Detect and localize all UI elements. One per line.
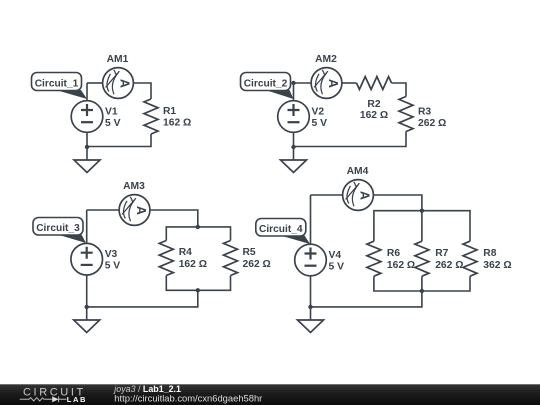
wire <box>87 209 119 211</box>
junction node rail top <box>196 225 200 229</box>
svg-text:Circuit_4: Circuit_4 <box>259 224 303 235</box>
wire <box>86 275 88 320</box>
svg-text:A: A <box>326 79 340 88</box>
ammeter AM2 <box>311 54 342 98</box>
wire <box>293 133 295 161</box>
svg-text:Circuit_1: Circuit_1 <box>35 78 79 89</box>
wire <box>310 195 312 244</box>
junction node <box>85 305 89 309</box>
node Circuit_4 flag <box>256 219 310 245</box>
svg-text:5 V: 5 V <box>312 118 328 129</box>
svg-text:AM1: AM1 <box>107 54 129 65</box>
svg-text:LAB: LAB <box>67 395 87 404</box>
svg-text:162 Ω: 162 Ω <box>163 118 191 129</box>
wire <box>374 195 422 241</box>
wire <box>87 290 198 307</box>
svg-text:A: A <box>358 191 372 200</box>
junction node <box>308 305 312 309</box>
wire <box>134 83 151 99</box>
svg-text:R4: R4 <box>179 247 192 258</box>
wire <box>294 132 407 147</box>
svg-text:V2: V2 <box>312 107 325 118</box>
svg-text:R3: R3 <box>418 107 431 118</box>
resistor R4 162 ohm <box>159 241 173 276</box>
ground <box>298 320 324 333</box>
resistor R1 162 ohm <box>144 99 158 134</box>
ground <box>74 320 100 333</box>
svg-text:AM4: AM4 <box>347 166 369 177</box>
wire <box>86 83 88 101</box>
svg-text:A: A <box>118 79 132 88</box>
svg-text:V4: V4 <box>329 250 342 261</box>
junction node top <box>291 81 295 85</box>
wire <box>293 83 295 101</box>
wire <box>150 210 198 227</box>
resistor R5 262 ohm <box>224 241 238 276</box>
svg-text:http://circuitlab.com/cxn6dgae: http://circuitlab.com/cxn6dgaeh58hr <box>114 393 262 404</box>
resistor R2 162 ohm <box>357 77 392 90</box>
svg-text:R5: R5 <box>243 247 256 258</box>
voltage source V4 5V <box>295 244 344 276</box>
ammeter AM3 <box>119 181 150 225</box>
ammeter AM4 <box>343 166 374 210</box>
resistor R6 162 ohm <box>367 241 381 276</box>
ammeter AM1 <box>103 54 134 98</box>
svg-text:AM2: AM2 <box>315 54 337 65</box>
ground <box>74 160 100 173</box>
svg-text:Circuit_3: Circuit_3 <box>36 223 80 234</box>
svg-text:362 Ω: 362 Ω <box>483 260 511 271</box>
voltage source V3 5V <box>71 243 120 275</box>
svg-text:R8: R8 <box>483 248 496 259</box>
junction node rail bottom <box>420 289 424 293</box>
svg-text:V1: V1 <box>105 107 118 118</box>
wire bottom rail <box>166 276 230 291</box>
wire <box>86 133 88 161</box>
voltage source V2 5V <box>278 101 327 133</box>
wire top rail <box>166 227 230 241</box>
svg-text:5 V: 5 V <box>105 261 121 272</box>
wire <box>311 194 343 196</box>
junction node bottom <box>291 145 295 149</box>
wire <box>86 210 88 243</box>
svg-text:A: A <box>134 206 148 215</box>
svg-text:5 V: 5 V <box>329 261 345 272</box>
wire <box>87 134 151 147</box>
wire <box>311 276 422 307</box>
wire bottom rail <box>374 276 470 291</box>
svg-text:162 Ω: 162 Ω <box>387 260 415 271</box>
junction node rail top <box>420 209 424 213</box>
wire <box>87 82 102 84</box>
svg-text:R2: R2 <box>367 99 380 110</box>
resistor R7 262 ohm <box>415 241 429 276</box>
node Circuit_3 flag <box>33 218 86 244</box>
junction node <box>85 145 89 149</box>
svg-text:V3: V3 <box>105 249 118 260</box>
ground <box>281 160 307 173</box>
svg-text:R1: R1 <box>163 106 176 117</box>
svg-text:Circuit_2: Circuit_2 <box>244 78 288 89</box>
svg-text:262 Ω: 262 Ω <box>418 118 446 129</box>
resistor R8 362 ohm <box>463 241 477 276</box>
svg-text:5 V: 5 V <box>105 118 121 129</box>
node Circuit_1 flag <box>32 73 88 100</box>
svg-text:R7: R7 <box>435 248 448 259</box>
wire <box>342 82 356 84</box>
logo schematic squiggle: wire-resistor-diode <box>20 396 67 402</box>
wire <box>392 83 407 97</box>
resistor R3 262 ohm <box>399 97 413 132</box>
wire <box>310 276 312 320</box>
voltage source V1 5V <box>71 101 120 133</box>
svg-text:162 Ω: 162 Ω <box>179 259 207 270</box>
svg-text:262 Ω: 262 Ω <box>243 259 271 270</box>
wire <box>294 82 311 84</box>
svg-text:162 Ω: 162 Ω <box>360 110 388 121</box>
node Circuit_2 flag <box>241 73 294 100</box>
junction node rail bottom <box>196 288 200 292</box>
svg-text:262 Ω: 262 Ω <box>435 260 463 271</box>
svg-text:AM3: AM3 <box>123 181 145 192</box>
wire top rail <box>374 211 470 242</box>
svg-text:R6: R6 <box>387 248 400 259</box>
